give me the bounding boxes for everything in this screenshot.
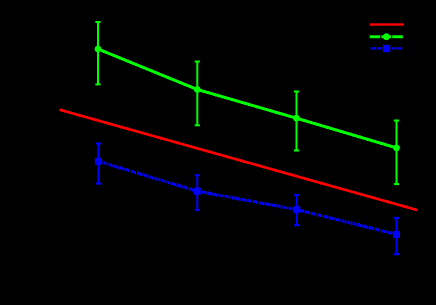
blue error bar 3: [294, 195, 299, 225]
green error bar 1: [95, 22, 100, 84]
blue curve: [97, 160, 395, 236]
legend green sample: [370, 33, 403, 40]
blue error bar 1: [96, 144, 101, 184]
legend blue sample: [371, 45, 403, 52]
green error bar 4: [394, 121, 399, 185]
legend red sample: [370, 23, 404, 25]
blue point markers: [95, 158, 400, 238]
blue error bar 4: [394, 218, 399, 254]
green curve: [98, 49, 397, 148]
green point markers: [95, 46, 400, 152]
red function line: [60, 110, 417, 210]
green error bar 2: [195, 62, 200, 126]
green error bar 3: [294, 92, 299, 151]
blue error bar 2: [195, 175, 200, 210]
